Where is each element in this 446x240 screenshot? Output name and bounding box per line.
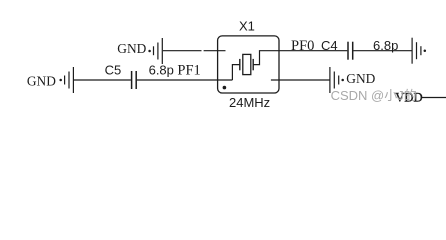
pin-1 marker dot [223, 86, 227, 90]
ground top-right symbol (mirrored) [412, 38, 426, 64]
capacitor C5 [132, 71, 137, 89]
wire: top-left GND to X1 pin [163, 50, 202, 52]
wire: interior left riser PF1 to crystal [232, 65, 239, 80]
svg-text:GND: GND [117, 41, 146, 56]
svg-text:PF0: PF0 [291, 38, 314, 54]
crystal element left plate [239, 59, 241, 70]
svg-text:GND: GND [27, 73, 56, 88]
ground GND bottom-left symbol [59, 67, 73, 93]
svg-text:PF1: PF1 [177, 63, 200, 79]
wire: interior right riser crystal to PF0 pin [253, 51, 271, 65]
svg-text:CSDN @小J的: CSDN @小J的 [331, 88, 417, 103]
svg-text:C5: C5 [105, 62, 122, 77]
wire: X1 PF0 pin to C4 [271, 50, 347, 52]
svg-text:6.8p: 6.8p [149, 62, 174, 77]
wire: bottom-left GND to C5 [74, 79, 131, 81]
ground GND top-left symbol [148, 38, 162, 64]
crystal X1 box [218, 36, 279, 93]
crystal element body rectangle [243, 54, 251, 74]
capacitor C4 [348, 42, 353, 60]
svg-text:C4: C4 [321, 38, 338, 53]
svg-text:24MHz: 24MHz [229, 95, 270, 110]
svg-text:GND: GND [346, 71, 375, 86]
wire: C4 to top-right ground [353, 50, 412, 52]
ground GND bottom-right symbol (mirrored) [330, 67, 344, 93]
wire: VDD net to right edge [422, 97, 446, 99]
wire: C5 to X1 PF1 pin [137, 79, 233, 81]
wire: X1 right-bottom pin to bottom-right ground [271, 79, 330, 81]
wire: X1 left-top pin stub [204, 50, 226, 52]
crystal element right plate [252, 59, 254, 70]
svg-text:X1: X1 [239, 19, 255, 34]
